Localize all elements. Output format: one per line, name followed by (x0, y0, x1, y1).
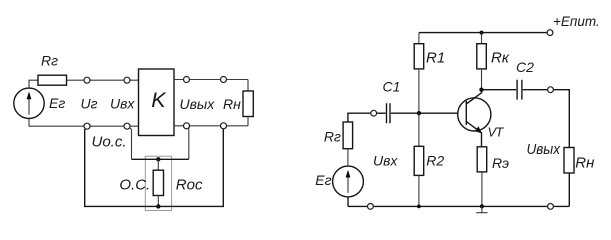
wire: output terminal to Rн (553, 90, 569, 148)
wire: bottom input row (29, 118, 139, 126)
resistor Rк (477, 44, 487, 69)
transistor collector lead (466, 90, 481, 104)
wire: bottom rail (348, 205, 569, 207)
resistor Rэ (477, 147, 487, 172)
terminal +Eпит. (547, 30, 553, 36)
svg-text:Rг: Rг (324, 129, 341, 145)
terminal Rн bottom (221, 123, 227, 129)
wire: Rос top stub (157, 159, 159, 170)
terminal Rн top (221, 77, 227, 83)
amplifier block K (139, 69, 175, 136)
wire: Rк top stub (481, 33, 483, 44)
svg-text:Rк: Rк (491, 50, 510, 67)
wire: R2 bottom stub (418, 175, 420, 206)
terminal Uг top (84, 77, 90, 83)
svg-text:Uвх: Uвх (110, 96, 135, 112)
feedback block frame (light) (145, 156, 171, 210)
terminal input left (371, 110, 377, 116)
wire: Rг to input terminals to K (67, 79, 139, 81)
wire: source top to Rг (29, 80, 38, 88)
wire: down to Rн (247, 80, 249, 92)
svg-text:Uвых: Uвых (527, 141, 561, 158)
transistor VT circle (458, 98, 491, 131)
node: Rк top on rail (480, 31, 484, 35)
wire: R1 bottom to base node (418, 69, 420, 113)
resistor Rн (vertical box) (243, 91, 253, 117)
svg-text:Rг: Rг (41, 53, 58, 69)
svg-text:K: K (151, 88, 167, 112)
wire: Rк bottom to collector node (481, 69, 483, 90)
source Eг (circle with up arrow) (14, 88, 44, 118)
wire: C1 to base (391, 112, 466, 114)
wire: Eг bottom to rail (347, 197, 349, 207)
wire: top supply rail (419, 32, 547, 34)
terminal input bottom (368, 204, 374, 210)
wire: R1 top stub (418, 33, 420, 44)
capacitor C2 (517, 80, 522, 100)
svg-text:Rэ: Rэ (492, 155, 509, 171)
node: base junction (417, 111, 421, 115)
resistor Rг (horizontal box) (38, 75, 67, 85)
svg-text:Uвх: Uвх (373, 153, 398, 169)
wire: Rн bottom (247, 117, 249, 126)
svg-text:R1: R1 (426, 50, 445, 67)
wire: Rг top corner to C1 (348, 113, 371, 122)
node: Rос bottom junction (156, 204, 160, 208)
wire: Rн bottom stub (568, 173, 570, 206)
svg-text:+Eпит.: +Eпит. (553, 14, 600, 29)
transistor emitter lead with arrow (466, 122, 481, 147)
source Eг (circle with up arrow) (333, 166, 364, 197)
node: ground junction (480, 204, 484, 208)
resistor R1 (414, 44, 424, 69)
wire: Rг bottom to Eг (347, 149, 349, 166)
svg-text:Rн: Rн (575, 155, 594, 172)
resistor Rн (564, 148, 574, 174)
terminal output bottom (548, 204, 554, 210)
terminal Uвх bottom (124, 123, 130, 129)
svg-text:Uо.с.: Uо.с. (92, 133, 127, 150)
svg-text:Eг: Eг (315, 172, 331, 188)
svg-text:Rн: Rн (223, 96, 241, 112)
node: R2 bottom on rail (417, 205, 421, 209)
capacitor C1 (387, 103, 391, 123)
terminal Uвых bottom (184, 123, 190, 129)
wire: feedback top horizontal (132, 158, 189, 160)
resistor R2 (414, 146, 424, 175)
terminal Uвых top (184, 77, 190, 83)
wire: Uвых bottom terminal down to feedback (188, 128, 190, 159)
svg-text:Uвых: Uвых (180, 96, 216, 112)
wire: collector node to C2 (482, 89, 517, 91)
svg-text:C1: C1 (383, 79, 401, 95)
transistor base bar (465, 101, 467, 125)
svg-text:Uг: Uг (81, 96, 98, 112)
wire: K output top (174, 79, 248, 81)
ground (476, 206, 487, 212)
wire: input terminal to C1 (377, 112, 386, 114)
wire: K output bottom (174, 125, 248, 127)
node: collector junction (479, 88, 483, 92)
wire: C2 to output terminal (523, 89, 548, 91)
terminal Uг bottom (84, 123, 90, 129)
resistor Rос (vertical box) (153, 170, 163, 195)
wire: R2 top stub (418, 113, 420, 146)
wire: Rэ bottom stub (481, 172, 483, 207)
svg-text:О.С.: О.С. (119, 177, 150, 194)
svg-text:VT: VT (488, 124, 505, 139)
svg-text:C2: C2 (516, 59, 534, 75)
terminal output top (548, 87, 554, 93)
svg-text:R2: R2 (426, 152, 444, 168)
node: Rос top junction (156, 157, 160, 161)
wire: Rос bottom stub (157, 196, 159, 207)
terminal Uвх top (124, 77, 130, 83)
wire: bottom feedback rail (85, 129, 224, 207)
svg-text:Eг: Eг (49, 95, 65, 111)
wire: Uвх bottom terminal down to feedback (129, 128, 131, 160)
svg-text:Rос: Rос (176, 177, 203, 194)
resistor Rг (343, 122, 353, 149)
